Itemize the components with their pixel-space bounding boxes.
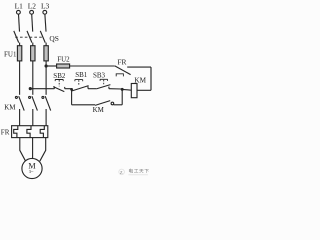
wire QS to FU1 pole3 [45, 43, 47, 46]
fuse FU2 label [57, 56, 70, 64]
pushbutton SB3 label [93, 71, 106, 79]
fuse FU1 pole1 [19, 46, 21, 61]
thermal relay heater pole2 [27, 126, 31, 138]
wire L2 to QS [32, 14, 33, 31]
wire aux branch left drop [71, 89, 73, 105]
switch QS linkage dashed [15, 36, 43, 38]
pushbutton SB2 label [53, 72, 66, 80]
switch QS pole 2 blade [27, 31, 32, 43]
wire control row to SB2 [30, 88, 54, 90]
pushbutton SB2 NC blade [53, 87, 64, 92]
junction dot control tap on L2 [29, 87, 32, 90]
wire tap to FU2 [46, 65, 57, 67]
wire SB1 to SB3 [88, 88, 96, 90]
wire aux lower right [114, 104, 123, 106]
contactor KM main pole1 fixed circle [15, 96, 17, 98]
pushbutton SB1 right stub [87, 86, 89, 88]
wire FR to right corner [127, 66, 151, 68]
wire QS to FU1 pole1 [19, 43, 21, 46]
svg-text:QS: QS [49, 34, 58, 43]
svg-text:电工天下: 电工天下 [128, 168, 149, 175]
thermal relay heater pole3 [40, 126, 44, 138]
contactor KM main pole3 fixed circle [42, 96, 44, 98]
motor M circle [22, 158, 42, 178]
node L2 label [28, 1, 37, 10]
thermal relay FR box [12, 126, 48, 138]
wire FR box to motor pole3 [40, 138, 46, 162]
wire KM to FR box pole2 [32, 109, 34, 126]
svg-text:3~: 3~ [29, 169, 34, 174]
wire aux riser [121, 89, 123, 104]
svg-text:L1: L1 [15, 1, 24, 10]
contact KM aux label [93, 106, 105, 114]
svg-text:SB3: SB3 [93, 71, 106, 79]
pushbutton SB1 label [75, 71, 88, 79]
pushbutton SB3 actuator stem dashed [103, 80, 105, 86]
svg-text:L2: L2 [28, 1, 37, 10]
wire FU1 to KM pole3 [45, 61, 47, 95]
pushbutton SB2 right stub [64, 87, 66, 89]
wire QS to FU1 pole2 [32, 43, 34, 46]
motor 3~ label [29, 169, 34, 174]
svg-text:Z: Z [120, 170, 123, 175]
wire L3 to QS [45, 14, 46, 31]
thermal relay FR label [1, 129, 10, 137]
watermark logo circle [119, 168, 150, 176]
contactor KM main pole2 fixed circle [29, 96, 31, 98]
wire coil left to node B [122, 88, 131, 91]
wire L1 to QS [19, 14, 20, 31]
wire KM to FR box pole1 [19, 109, 21, 126]
wire FU1 to KM pole2 [32, 61, 34, 95]
pushbutton SB1 actuator T [75, 80, 83, 82]
svg-text:FR: FR [117, 58, 126, 67]
pushbutton SB2 actuator T [55, 80, 63, 82]
node L1 label [15, 1, 24, 10]
contact KM aux blade [95, 101, 110, 106]
svg-text:SB2: SB2 [53, 72, 66, 80]
switch QS pole 3 blade [40, 31, 45, 43]
wire FU2 to FR contact [70, 65, 115, 67]
motor M letter [28, 162, 36, 171]
thermal relay heater pole1 [14, 126, 18, 138]
thermal relay FR contact label [117, 58, 126, 67]
wire aux lower left [72, 104, 96, 106]
pushbutton SB3 right stub [108, 87, 110, 89]
junction dot on L3 for control tap [45, 64, 48, 67]
wire FR box to motor pole1 [20, 138, 26, 162]
switch QS label [49, 34, 58, 43]
pushbutton SB1 actuator stem dashed [78, 80, 80, 85]
terminal circle L1 [17, 10, 21, 14]
wire SB2 to node A [65, 88, 72, 90]
svg-text:L3: L3 [41, 1, 50, 10]
pushbutton SB3 NO blade [96, 85, 110, 89]
fuse FU1 label [4, 50, 17, 58]
svg-text:KM: KM [4, 104, 16, 112]
switch QS pole 1 blade [14, 31, 19, 43]
fuse FU2 [57, 64, 70, 68]
wire FR box to motor pole2 [32, 138, 34, 159]
wire KM to FR box pole3 [45, 109, 47, 126]
pushbutton SB1 NO blade [72, 86, 89, 91]
junction dot node B [121, 88, 124, 91]
svg-text:KM: KM [93, 106, 105, 114]
wire right vertical [150, 67, 152, 90]
node L3 label [41, 1, 50, 10]
fuse FU1 pole3 [45, 46, 47, 61]
terminal circle L3 [43, 10, 47, 14]
wire SB3 to node B [109, 88, 122, 90]
pushbutton SB2 left stub [53, 86, 55, 88]
thermal relay FR NC contact blade [115, 66, 131, 75]
svg-text:FU1: FU1 [4, 50, 17, 58]
junction dot node A [70, 88, 73, 91]
thermal relay FR NC hook [116, 74, 123, 77]
contactor KM main pole2 blade [32, 96, 38, 110]
svg-text:SB1: SB1 [75, 71, 88, 79]
contactor KM main label [4, 104, 16, 112]
contactor KM main pole1 blade [19, 96, 25, 110]
contact KM aux fixed circle [111, 102, 114, 105]
pushbutton SB3 actuator T [100, 79, 108, 81]
wire to coil right side [137, 89, 151, 91]
contactor coil KM [131, 84, 137, 98]
wire FU1 to KM pole1 [19, 61, 21, 95]
pushbutton SB2 actuator stem dashed [58, 80, 60, 86]
contactor KM main pole3 blade [45, 96, 51, 110]
contactor coil KM label [134, 76, 146, 84]
svg-text:FR: FR [1, 129, 10, 137]
svg-text:FU2: FU2 [57, 56, 70, 64]
terminal circle L2 [30, 10, 34, 14]
fuse FU1 pole2 [32, 46, 34, 61]
